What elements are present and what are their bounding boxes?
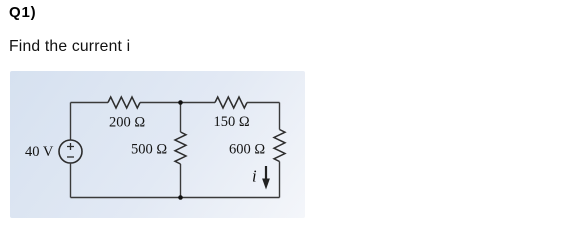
wire middle lower bbox=[180, 164, 182, 198]
resistor 500 ohm bbox=[175, 132, 186, 164]
circuit panel bbox=[10, 71, 305, 218]
resistor 200 ohm bbox=[108, 97, 140, 108]
minus sign bbox=[67, 156, 74, 158]
wire left upper bbox=[70, 103, 72, 141]
voltage source V1 bbox=[59, 140, 82, 163]
wire top-left segment bbox=[71, 102, 109, 104]
svg-text:600 Ω: 600 Ω bbox=[229, 141, 265, 157]
svg-text:200 Ω: 200 Ω bbox=[109, 114, 145, 130]
wire middle upper bbox=[180, 103, 182, 133]
current arrow i bbox=[265, 166, 267, 179]
wire top-middle segment bbox=[140, 102, 215, 104]
junction node top bbox=[178, 100, 183, 105]
svg-text:40 V: 40 V bbox=[25, 144, 54, 160]
wire right upper bbox=[279, 103, 281, 130]
svg-text:i: i bbox=[252, 166, 257, 185]
prompt text bbox=[9, 38, 130, 56]
resistor 600 ohm bbox=[274, 130, 285, 162]
wire bottom bbox=[71, 197, 280, 199]
junction node bottom bbox=[178, 195, 183, 200]
resistor 150 ohm bbox=[215, 97, 247, 108]
plus sign bbox=[67, 143, 74, 150]
wire right lower bbox=[279, 162, 281, 198]
wire left lower bbox=[70, 163, 72, 198]
svg-text:150 Ω: 150 Ω bbox=[214, 114, 250, 130]
svg-text:500 Ω: 500 Ω bbox=[131, 141, 167, 157]
wire top-right segment bbox=[247, 102, 280, 104]
heading Q1) bbox=[9, 4, 36, 21]
